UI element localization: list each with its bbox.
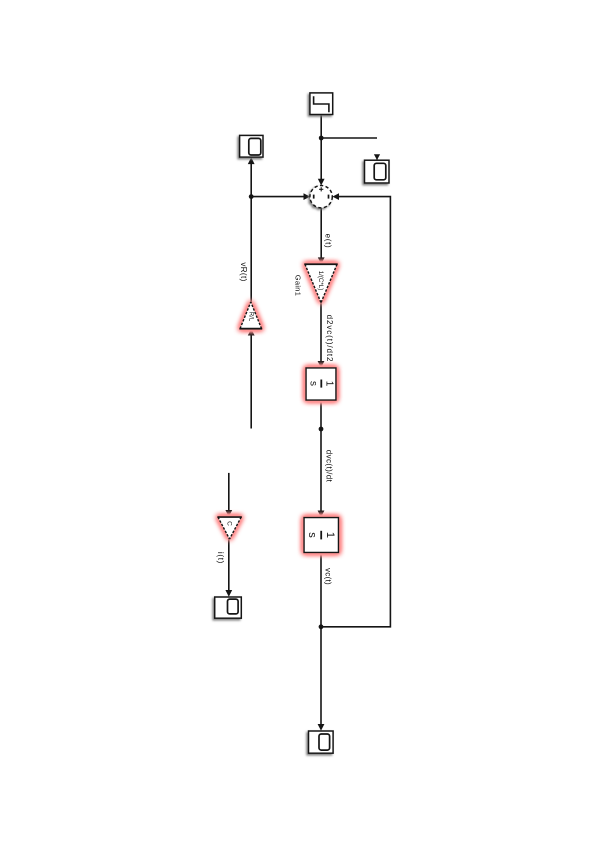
minus sign left input — [313, 195, 315, 199]
junction dot between integrators — [319, 427, 324, 432]
wire sum to Gain1 — [320, 208, 322, 258]
step source block — [310, 93, 333, 115]
gain R/L triangle pointing up — [239, 302, 262, 329]
svg-text:dvc(t)/dt: dvc(t)/dt — [325, 450, 334, 483]
integrator block Integrator — [306, 368, 336, 400]
svg-text:C: C — [225, 521, 232, 526]
svg-text:1: 1 — [324, 532, 336, 538]
gain Gain1 triangle — [304, 264, 338, 303]
arrow into Scope1 — [248, 157, 255, 164]
svg-text:d2vc(t)/dt2: d2vc(t)/dt2 — [325, 315, 334, 363]
arrow into Integrator1 — [318, 511, 325, 518]
svg-text:1/(C*L): 1/(C*L) — [317, 271, 324, 291]
scope Scope4 bottom output — [309, 731, 334, 753]
minus sign right input — [328, 195, 330, 199]
unconnected input port arrow of Scope2 — [374, 154, 380, 160]
junction dot feedback takeoff — [319, 624, 324, 629]
svg-text:R/L: R/L — [248, 312, 254, 322]
svg-text:vc(t): vc(t) — [324, 568, 333, 585]
wire left input into sum — [251, 196, 304, 198]
arrow into sum right — [332, 193, 339, 200]
arrow into RL-gain — [248, 329, 255, 336]
wire step to sum — [320, 115, 322, 180]
svg-text:1: 1 — [324, 381, 335, 387]
svg-text:e(t): e(t) — [324, 234, 333, 249]
scope Scope2 right of sum, unconnected — [365, 160, 390, 183]
svg-text:s: s — [308, 381, 319, 386]
arrow into sum left — [304, 193, 311, 200]
wire dangling into C-gain — [228, 473, 230, 512]
arrow into Gain1 — [318, 257, 325, 264]
svg-text:Gain1: Gain1 — [294, 275, 303, 297]
arrow into sum top — [318, 179, 325, 186]
scope Scope1 top-left — [240, 135, 263, 157]
wire Integrator1 to Scope bottom — [320, 552, 322, 724]
scope Scope3 bottom-left — [215, 597, 242, 618]
svg-text:s: s — [306, 532, 318, 538]
arrow into C-gain — [225, 510, 232, 517]
wire feedback loop — [321, 197, 390, 627]
wire Integrator to Integrator1 — [320, 400, 322, 512]
wire Gain1 to Integrator — [320, 303, 322, 362]
wire RL-gain output up to scope1 — [250, 164, 252, 302]
svg-text:i(t): i(t) — [216, 552, 225, 564]
junction dot left branch — [249, 194, 254, 199]
plus sign top input — [319, 187, 323, 191]
integrator1 icon 1/s rotated — [320, 531, 322, 540]
junction dot at step branch — [319, 136, 324, 141]
integrator icon 1/s rotated — [320, 380, 322, 388]
arrow into Scope3 — [225, 590, 232, 597]
wire dangling into RL-gain from below — [250, 335, 252, 429]
arrow into Scope4 — [318, 724, 325, 731]
wire dangling branch to the right at y=138 — [321, 137, 377, 139]
wire C-gain to Scope3 — [228, 539, 230, 591]
integrator block Integrator1 — [304, 518, 339, 553]
arrow into Integrator — [318, 361, 325, 368]
gain C triangle pointing down — [217, 517, 242, 539]
sum junction circle — [310, 186, 332, 208]
svg-text:vR(t): vR(t) — [239, 262, 248, 281]
